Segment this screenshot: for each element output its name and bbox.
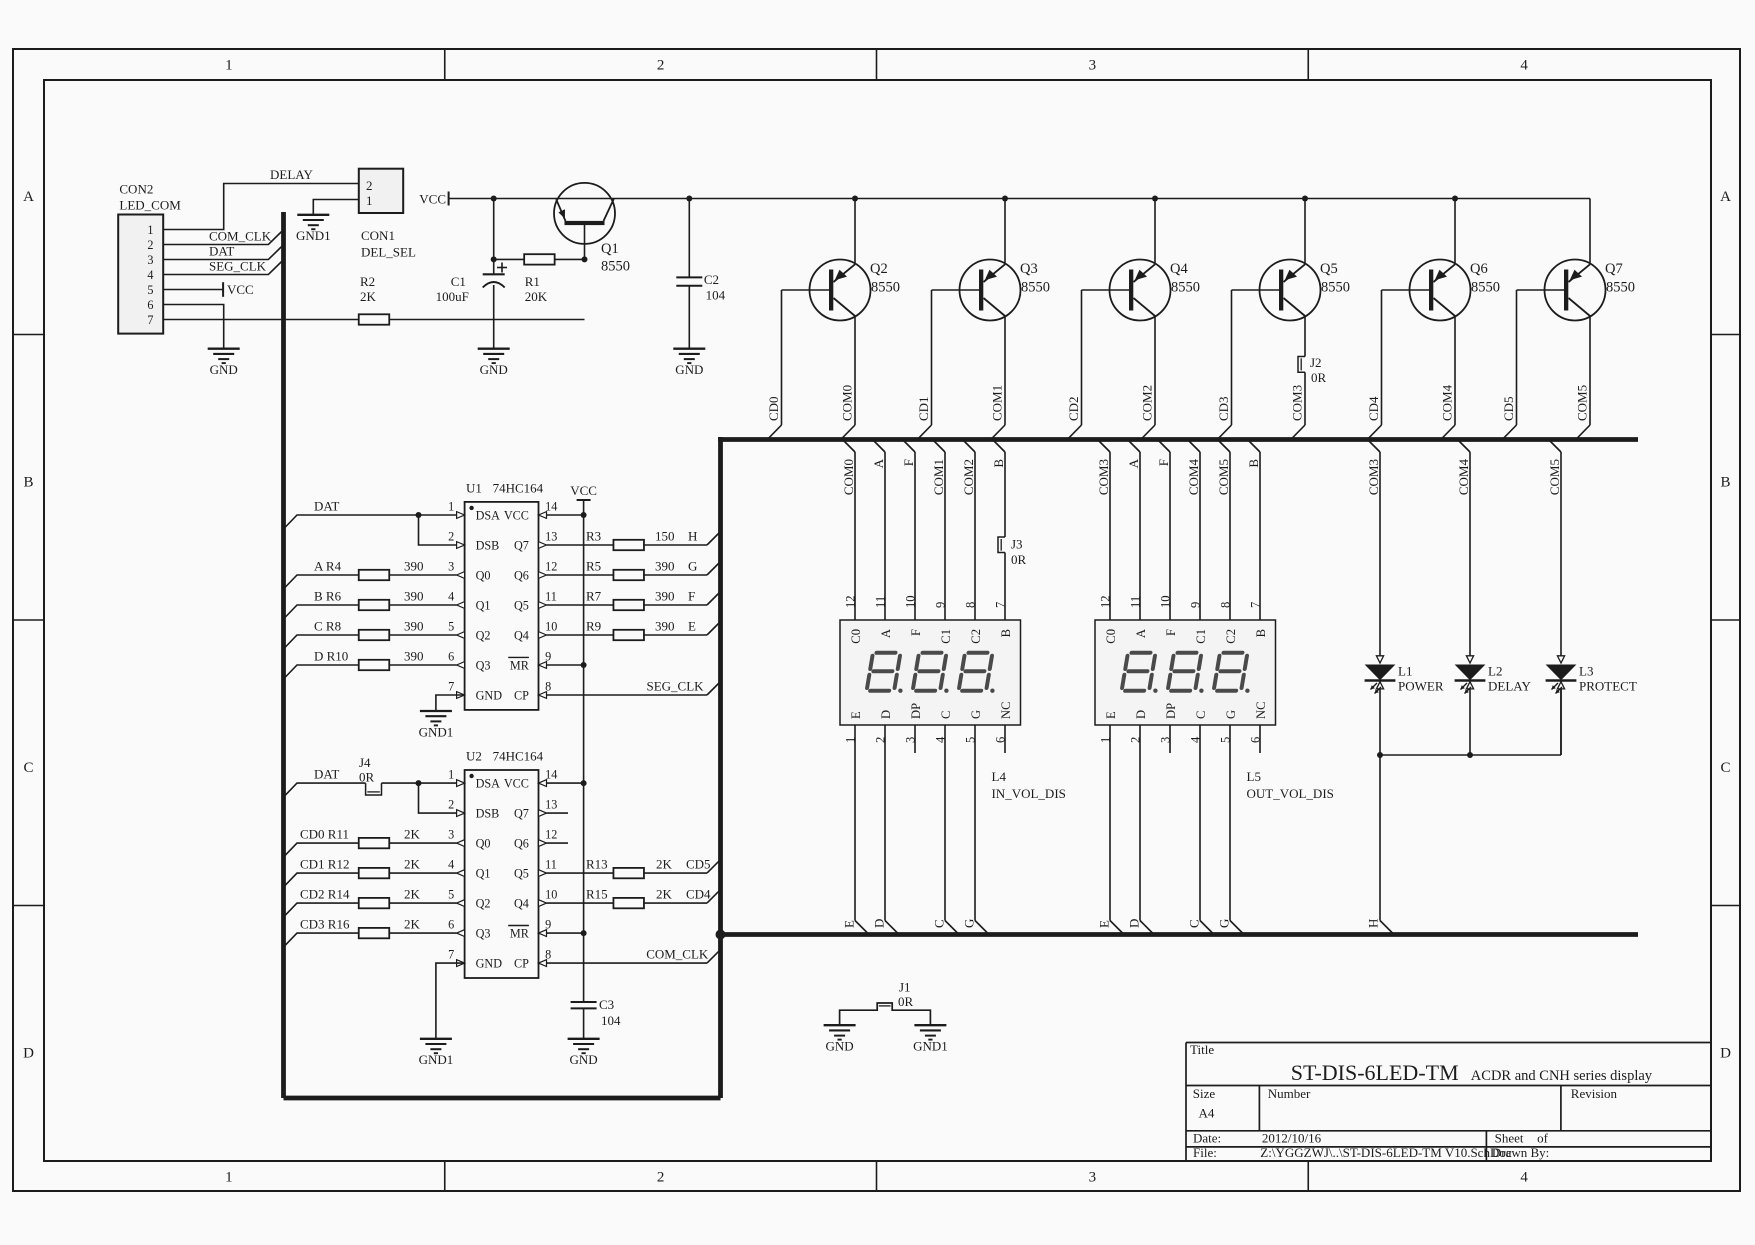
svg-text:DEL_SEL: DEL_SEL [361, 244, 416, 259]
svg-text:COM_CLK: COM_CLK [209, 229, 272, 244]
svg-text:GND1: GND1 [296, 228, 331, 243]
svg-text:R5: R5 [586, 559, 601, 574]
svg-text:COM2: COM2 [1140, 385, 1155, 421]
svg-text:11: 11 [545, 858, 557, 872]
svg-text:Q4: Q4 [514, 897, 529, 911]
svg-text:Q3: Q3 [476, 659, 491, 673]
svg-text:R7: R7 [586, 589, 602, 604]
svg-text:VCC: VCC [504, 777, 529, 791]
svg-text:10: 10 [545, 888, 557, 902]
svg-text:B: B [1720, 475, 1730, 491]
svg-text:C: C [23, 760, 33, 776]
svg-text:CD2 R14: CD2 R14 [300, 887, 350, 902]
svg-text:COM1: COM1 [931, 459, 946, 495]
svg-text:8550: 8550 [1021, 280, 1050, 296]
svg-text:Q2: Q2 [476, 629, 491, 643]
svg-text:R13: R13 [586, 857, 608, 872]
svg-text:7: 7 [994, 602, 1008, 608]
svg-text:2012/10/16: 2012/10/16 [1262, 1131, 1322, 1146]
svg-text:COM5: COM5 [1547, 459, 1562, 495]
svg-text:R2: R2 [360, 274, 375, 289]
svg-text:VCC: VCC [504, 509, 529, 523]
svg-text:12: 12 [545, 828, 557, 842]
svg-text:GND: GND [480, 362, 508, 377]
svg-text:COM2: COM2 [961, 459, 976, 495]
svg-text:2K: 2K [656, 857, 673, 872]
svg-text:8550: 8550 [1471, 280, 1500, 296]
svg-text:F: F [1156, 459, 1171, 466]
svg-text:GND: GND [570, 1052, 598, 1067]
svg-text:VCC: VCC [419, 192, 446, 207]
svg-text:6: 6 [448, 650, 454, 664]
svg-text:C: C [1194, 711, 1208, 719]
svg-text:GND1: GND1 [419, 724, 454, 739]
svg-text:J1: J1 [899, 980, 911, 995]
svg-text:R9: R9 [586, 619, 601, 634]
svg-text:DSA: DSA [476, 777, 501, 791]
svg-text:COM3: COM3 [1366, 459, 1381, 495]
svg-text:E: E [842, 920, 857, 928]
svg-text:390: 390 [655, 589, 675, 604]
svg-text:DAT: DAT [209, 244, 234, 259]
svg-text:U1: U1 [466, 480, 482, 495]
svg-text:COM3: COM3 [1290, 385, 1305, 421]
svg-text:COM_CLK: COM_CLK [646, 947, 709, 962]
svg-text:DELAY: DELAY [270, 167, 313, 182]
svg-text:H: H [688, 529, 697, 544]
svg-text:GND1: GND1 [913, 1039, 948, 1054]
svg-text:5: 5 [448, 620, 454, 634]
svg-text:8550: 8550 [1606, 280, 1635, 296]
svg-text:Q6: Q6 [514, 837, 529, 851]
svg-text:PROTECT: PROTECT [1579, 679, 1637, 694]
svg-text:R3: R3 [586, 529, 601, 544]
svg-text:7: 7 [448, 680, 454, 694]
svg-text:B R6: B R6 [314, 589, 342, 604]
svg-text:DP: DP [1164, 703, 1178, 719]
svg-text:F: F [688, 589, 695, 604]
svg-text:Number: Number [1268, 1086, 1311, 1101]
svg-text:CD4: CD4 [686, 887, 711, 902]
svg-text:CD3: CD3 [1216, 396, 1231, 421]
svg-text:3: 3 [1089, 58, 1097, 74]
svg-text:A: A [1720, 189, 1731, 205]
svg-text:Q1: Q1 [476, 599, 491, 613]
svg-text:COM4: COM4 [1456, 459, 1471, 496]
svg-text:2K: 2K [404, 917, 421, 932]
svg-text:2: 2 [366, 178, 373, 193]
svg-text:Q7: Q7 [514, 807, 529, 821]
svg-text:C: C [1187, 919, 1202, 928]
svg-text:A4: A4 [1199, 1106, 1215, 1121]
svg-text:F: F [909, 629, 923, 636]
svg-text:7: 7 [1249, 602, 1263, 608]
svg-text:2K: 2K [360, 289, 377, 304]
svg-text:COM1: COM1 [990, 385, 1005, 421]
svg-text:DP: DP [909, 703, 923, 719]
svg-text:1: 1 [225, 58, 233, 74]
svg-text:5: 5 [147, 283, 153, 297]
svg-text:E: E [1104, 711, 1118, 719]
svg-text:7: 7 [448, 948, 454, 962]
svg-text:OUT_VOL_DIS: OUT_VOL_DIS [1247, 786, 1334, 801]
svg-text:B: B [991, 459, 1006, 468]
svg-text:POWER: POWER [1398, 679, 1444, 694]
svg-text:Q1: Q1 [601, 241, 619, 257]
svg-text:Q4: Q4 [1170, 261, 1188, 277]
svg-text:File:: File: [1193, 1145, 1217, 1160]
svg-text:GND: GND [826, 1039, 854, 1054]
svg-text:Q3: Q3 [476, 927, 491, 941]
svg-text:2K: 2K [404, 827, 421, 842]
svg-text:Q1: Q1 [476, 867, 491, 881]
svg-text:10: 10 [545, 620, 557, 634]
svg-text:C2: C2 [1224, 629, 1238, 644]
svg-text:390: 390 [404, 559, 424, 574]
svg-text:C1: C1 [451, 274, 466, 289]
svg-text:CON1: CON1 [361, 228, 395, 243]
svg-text:12: 12 [545, 560, 557, 574]
svg-text:J4: J4 [359, 755, 371, 770]
svg-text:G: G [688, 559, 697, 574]
svg-text:ST-DIS-6LED-TM: ST-DIS-6LED-TM [1291, 1060, 1459, 1085]
svg-text:C0: C0 [1104, 629, 1118, 644]
svg-text:VCC: VCC [570, 483, 597, 498]
svg-text:VCC: VCC [227, 282, 254, 297]
svg-text:L4: L4 [992, 769, 1007, 784]
svg-text:NC: NC [999, 702, 1013, 720]
svg-text:B: B [23, 475, 33, 491]
svg-text:3: 3 [448, 560, 454, 574]
svg-text:COM4: COM4 [1186, 459, 1201, 496]
svg-text:100uF: 100uF [436, 289, 469, 304]
svg-text:DAT: DAT [314, 767, 339, 782]
svg-text:COM5: COM5 [1575, 385, 1590, 421]
svg-text:4: 4 [1520, 58, 1528, 74]
svg-text:Title: Title [1190, 1042, 1214, 1057]
svg-text:CP: CP [514, 689, 529, 703]
svg-text:1: 1 [225, 1170, 233, 1186]
svg-text:Drawn By:: Drawn By: [1492, 1145, 1549, 1160]
svg-text:C2: C2 [704, 272, 719, 287]
svg-text:G: G [962, 919, 977, 928]
svg-text:COM5: COM5 [1216, 459, 1231, 495]
svg-text:8550: 8550 [601, 259, 630, 275]
svg-text:B: B [999, 629, 1013, 637]
svg-text:L5: L5 [1247, 769, 1261, 784]
svg-text:E: E [688, 619, 696, 634]
svg-text:74HC164: 74HC164 [493, 749, 544, 764]
svg-text:U2: U2 [466, 749, 482, 764]
svg-text:5: 5 [448, 888, 454, 902]
svg-text:1: 1 [147, 223, 153, 237]
svg-text:GND: GND [210, 362, 238, 377]
svg-text:SEG_CLK: SEG_CLK [647, 679, 705, 694]
svg-text:CP: CP [514, 957, 529, 971]
svg-text:MR: MR [510, 659, 530, 673]
svg-text:CD2: CD2 [1066, 396, 1081, 421]
svg-text:11: 11 [1129, 596, 1143, 608]
svg-text:A: A [23, 189, 34, 205]
svg-text:Size: Size [1193, 1086, 1216, 1101]
svg-text:D: D [23, 1046, 34, 1062]
svg-text:Q6: Q6 [514, 569, 529, 583]
svg-text:390: 390 [655, 619, 675, 634]
svg-text:of: of [1537, 1131, 1549, 1146]
svg-text:C R8: C R8 [314, 619, 341, 634]
svg-text:CD5: CD5 [686, 857, 711, 872]
svg-text:Z:\YGGZWJ\..\ST-DIS-6LED-TM V1: Z:\YGGZWJ\..\ST-DIS-6LED-TM V10.SchDoc [1260, 1145, 1512, 1160]
svg-text:SEG_CLK: SEG_CLK [209, 259, 267, 274]
svg-text:CD1 R12: CD1 R12 [300, 857, 349, 872]
svg-text:104: 104 [706, 288, 726, 303]
svg-text:13: 13 [545, 530, 557, 544]
svg-text:C0: C0 [849, 629, 863, 644]
svg-text:Q5: Q5 [514, 867, 529, 881]
svg-text:A: A [1134, 629, 1148, 638]
svg-text:CON2: CON2 [119, 182, 153, 197]
svg-text:L1: L1 [1398, 664, 1412, 679]
svg-text:C3: C3 [599, 997, 614, 1012]
svg-text:2: 2 [448, 530, 454, 544]
svg-text:A: A [1126, 458, 1141, 468]
svg-text:4: 4 [1520, 1170, 1528, 1186]
svg-text:COM0: COM0 [841, 459, 856, 495]
svg-text:CD4: CD4 [1366, 396, 1381, 421]
svg-text:DELAY: DELAY [1488, 679, 1531, 694]
svg-text:Q6: Q6 [1470, 261, 1488, 277]
svg-text:Q2: Q2 [476, 897, 491, 911]
svg-text:GND: GND [476, 957, 503, 971]
svg-text:C: C [932, 919, 947, 928]
svg-text:Q7: Q7 [514, 539, 529, 553]
svg-text:A: A [871, 458, 886, 468]
svg-text:COM0: COM0 [840, 385, 855, 421]
svg-text:Q3: Q3 [1020, 261, 1038, 277]
svg-text:R15: R15 [586, 887, 608, 902]
svg-text:3: 3 [1089, 1170, 1097, 1186]
svg-text:1: 1 [448, 500, 454, 514]
svg-text:LED_COM: LED_COM [119, 198, 181, 213]
svg-text:2K: 2K [656, 887, 673, 902]
svg-text:20K: 20K [525, 289, 548, 304]
svg-text:COM3: COM3 [1096, 459, 1111, 495]
svg-text:COM4: COM4 [1440, 384, 1455, 421]
svg-text:C2: C2 [969, 629, 983, 644]
svg-text:8550: 8550 [1171, 280, 1200, 296]
svg-text:A: A [879, 629, 893, 638]
svg-text:2: 2 [657, 1170, 665, 1186]
svg-text:GND1: GND1 [419, 1052, 454, 1067]
svg-text:Date:: Date: [1193, 1131, 1221, 1146]
svg-text:Q2: Q2 [870, 261, 888, 277]
svg-text:DSA: DSA [476, 509, 501, 523]
svg-text:104: 104 [601, 1013, 621, 1028]
svg-text:DAT: DAT [314, 499, 339, 514]
svg-text:Q0: Q0 [476, 569, 491, 583]
svg-text:Q5: Q5 [514, 599, 529, 613]
svg-text:9: 9 [1189, 602, 1203, 608]
svg-text:2: 2 [448, 798, 454, 812]
svg-text:390: 390 [404, 649, 424, 664]
svg-text:10: 10 [904, 595, 918, 608]
svg-text:GND: GND [675, 362, 703, 377]
svg-text:A R4: A R4 [314, 559, 342, 574]
svg-text:3: 3 [448, 828, 454, 842]
svg-text:R1: R1 [525, 274, 540, 289]
svg-text:Q0: Q0 [476, 837, 491, 851]
svg-text:CD3 R16: CD3 R16 [300, 917, 350, 932]
svg-text:C1: C1 [1194, 629, 1208, 644]
svg-text:0R: 0R [1011, 552, 1027, 567]
svg-text:ACDR and CNH series display: ACDR and CNH series display [1471, 1068, 1653, 1084]
svg-text:Q7: Q7 [1605, 261, 1623, 277]
svg-text:GND: GND [476, 689, 503, 703]
svg-text:D: D [1127, 919, 1142, 928]
svg-text:CD0: CD0 [766, 396, 781, 421]
svg-text:J3: J3 [1011, 537, 1023, 552]
svg-text:F: F [901, 459, 916, 466]
svg-text:13: 13 [545, 798, 557, 812]
svg-text:DSB: DSB [476, 539, 500, 553]
svg-text:G: G [1224, 710, 1238, 719]
svg-text:NC: NC [1254, 702, 1268, 720]
svg-text:Q4: Q4 [514, 629, 529, 643]
svg-text:Sheet: Sheet [1495, 1131, 1524, 1146]
svg-text:2: 2 [657, 58, 665, 74]
svg-text:D: D [1134, 710, 1148, 719]
svg-text:J2: J2 [1310, 355, 1322, 370]
svg-text:0R: 0R [1311, 370, 1327, 385]
svg-text:C: C [1720, 760, 1730, 776]
svg-text:2: 2 [147, 238, 153, 252]
svg-text:2K: 2K [404, 857, 421, 872]
svg-text:B: B [1254, 629, 1268, 637]
svg-text:CD5: CD5 [1501, 396, 1516, 421]
svg-text:H: H [1366, 919, 1381, 928]
svg-text:E: E [849, 711, 863, 719]
svg-text:10: 10 [1159, 595, 1173, 608]
svg-text:12: 12 [844, 595, 858, 608]
svg-text:CD0 R11: CD0 R11 [300, 827, 349, 842]
svg-text:MR: MR [510, 927, 530, 941]
svg-text:7: 7 [147, 313, 153, 327]
svg-text:9: 9 [934, 602, 948, 608]
svg-text:8550: 8550 [1321, 280, 1350, 296]
svg-text:E: E [1097, 920, 1112, 928]
svg-text:Revision: Revision [1571, 1086, 1618, 1101]
svg-text:390: 390 [404, 589, 424, 604]
svg-text:6: 6 [448, 918, 454, 932]
svg-text:4: 4 [448, 858, 454, 872]
svg-text:4: 4 [147, 268, 153, 282]
svg-text:150: 150 [655, 529, 675, 544]
svg-text:B: B [1246, 459, 1261, 468]
svg-text:4: 4 [448, 590, 454, 604]
svg-text:0R: 0R [359, 770, 375, 785]
svg-text:C: C [939, 711, 953, 719]
svg-text:390: 390 [655, 559, 675, 574]
svg-text:8: 8 [964, 602, 978, 608]
svg-text:1: 1 [366, 193, 373, 208]
svg-text:D R10: D R10 [314, 649, 348, 664]
svg-text:F: F [1164, 629, 1178, 636]
svg-text:11: 11 [545, 590, 557, 604]
svg-text:0R: 0R [898, 994, 914, 1009]
svg-text:DSB: DSB [476, 807, 500, 821]
svg-text:12: 12 [1099, 595, 1113, 608]
svg-text:D: D [879, 710, 893, 719]
svg-text:L2: L2 [1488, 664, 1502, 679]
svg-text:6: 6 [147, 298, 153, 312]
svg-text:8550: 8550 [871, 280, 900, 296]
svg-text:C1: C1 [939, 629, 953, 644]
svg-text:8: 8 [1219, 602, 1233, 608]
svg-text:390: 390 [404, 619, 424, 634]
svg-text:CD1: CD1 [916, 396, 931, 421]
svg-text:3: 3 [147, 253, 153, 267]
svg-text:G: G [1217, 919, 1232, 928]
svg-text:G: G [969, 710, 983, 719]
svg-text:D: D [1720, 1046, 1731, 1062]
svg-text:Q5: Q5 [1320, 261, 1338, 277]
svg-text:D: D [872, 919, 887, 928]
svg-text:11: 11 [874, 596, 888, 608]
svg-text:IN_VOL_DIS: IN_VOL_DIS [992, 786, 1066, 801]
svg-text:74HC164: 74HC164 [493, 480, 544, 495]
svg-text:L3: L3 [1579, 664, 1593, 679]
svg-text:1: 1 [448, 768, 454, 782]
svg-text:2K: 2K [404, 887, 421, 902]
